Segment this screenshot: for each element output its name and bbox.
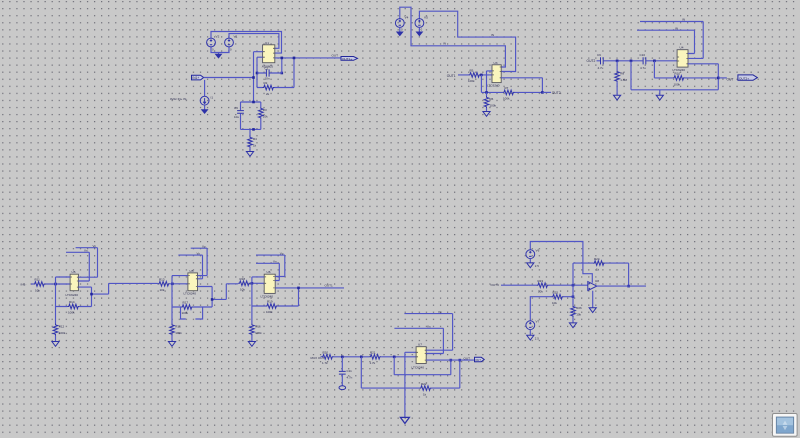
svg-text:10k: 10k: [263, 115, 268, 119]
svg-text:OUT2: OUT2: [552, 91, 561, 95]
svg-text:OUT: OUT: [464, 357, 471, 361]
svg-text:R16: R16: [255, 325, 261, 329]
svg-text:100k: 100k: [59, 331, 66, 335]
svg-text:100k: 100k: [255, 331, 262, 335]
svg-text:OUT: OUT: [727, 78, 734, 82]
svg-text:4.7u: 4.7u: [640, 66, 646, 70]
svg-text:R6: R6: [490, 97, 494, 101]
svg-text:R19: R19: [267, 300, 273, 304]
svg-text:R24: R24: [594, 257, 600, 261]
svg-text:1k: 1k: [253, 144, 257, 148]
svg-text:R5: R5: [470, 69, 474, 73]
svg-text:1.8M: 1.8M: [620, 78, 627, 82]
svg-text:OUT3: OUT3: [491, 283, 500, 287]
svg-text:U3: U3: [494, 61, 498, 65]
svg-text:R17: R17: [183, 301, 189, 305]
svg-text:C10: C10: [640, 53, 646, 57]
svg-text:100k: 100k: [175, 331, 182, 335]
svg-text:IN1+: IN1+: [192, 76, 199, 80]
svg-text:U6: U6: [267, 270, 271, 274]
svg-text:OUT2+: OUT2+: [739, 77, 749, 81]
svg-text:2.5: 2.5: [535, 264, 539, 268]
svg-text:100k: 100k: [182, 311, 189, 315]
svg-text:C11: C11: [347, 369, 353, 373]
svg-text:IN: IN: [491, 33, 494, 37]
svg-text:Vp: Vp: [438, 310, 442, 314]
svg-text:R26: R26: [576, 306, 582, 310]
svg-text:R22: R22: [421, 382, 427, 386]
svg-text:100k: 100k: [490, 104, 497, 108]
svg-text:Vn: Vn: [84, 249, 88, 253]
svg-text:IN: IN: [675, 26, 678, 30]
svg-text:R10: R10: [675, 72, 681, 76]
svg-text:R3: R3: [263, 108, 267, 112]
svg-text:U4: U4: [680, 46, 684, 50]
svg-text:2.5: 2.5: [535, 336, 539, 340]
svg-text:10u: 10u: [234, 115, 239, 119]
svg-text:R15: R15: [175, 325, 181, 329]
svg-text:1.7k: 1.7k: [370, 361, 376, 365]
svg-text:100k: 100k: [266, 310, 273, 314]
svg-text:R25: R25: [553, 290, 559, 294]
svg-text:OUT: OUT: [332, 54, 339, 58]
svg-text:U1: U1: [265, 41, 269, 45]
svg-text:R13: R13: [159, 278, 165, 282]
svg-text:10n: 10n: [265, 77, 270, 81]
svg-text:0Vdc IN+ IN-: 0Vdc IN+ IN-: [170, 97, 187, 101]
svg-text:IN: IN: [443, 42, 446, 46]
svg-text:C9: C9: [597, 53, 601, 57]
svg-text:R11: R11: [35, 278, 41, 282]
svg-text:10k: 10k: [240, 288, 245, 292]
svg-text:V5: V5: [424, 16, 428, 20]
svg-text:U5: U5: [72, 270, 76, 274]
svg-text:R20: R20: [323, 351, 329, 355]
svg-text:10k: 10k: [538, 290, 543, 294]
svg-text:R21: R21: [370, 351, 376, 355]
svg-text:Vp: Vp: [280, 251, 284, 255]
svg-text:OUT1: OUT1: [325, 283, 334, 287]
svg-text:100k: 100k: [503, 97, 510, 101]
svg-text:100k: 100k: [468, 79, 475, 83]
svg-text:LTC6240: LTC6240: [261, 294, 274, 298]
svg-text:R7: R7: [505, 86, 509, 90]
svg-text:4.7u: 4.7u: [598, 66, 604, 70]
svg-text:V1: V1: [234, 35, 238, 39]
svg-text:U8: U8: [595, 279, 599, 283]
svg-text:V2: V2: [216, 35, 220, 39]
svg-text:R23: R23: [538, 279, 544, 283]
svg-text:Vn: Vn: [427, 325, 431, 329]
svg-text:100k: 100k: [674, 82, 681, 86]
svg-text:R14: R14: [69, 300, 75, 304]
svg-text:R18: R18: [240, 277, 246, 281]
svg-text:U5: U5: [190, 269, 194, 273]
svg-text:C1: C1: [265, 67, 269, 71]
svg-text:Vp: Vp: [93, 244, 97, 248]
svg-text:R8: R8: [620, 72, 624, 76]
svg-text:10k: 10k: [35, 288, 40, 292]
svg-text:V7: V7: [536, 320, 540, 324]
svg-text:4.7n: 4.7n: [347, 376, 353, 380]
svg-text:1k: 1k: [596, 267, 600, 271]
svg-text:LTC6240: LTC6240: [66, 293, 79, 297]
svg-text:10k: 10k: [576, 313, 581, 317]
svg-text:Vn: Vn: [197, 251, 201, 255]
svg-text:R2: R2: [264, 81, 268, 85]
svg-text:V4: V4: [405, 16, 409, 20]
svg-text:OUT2: OUT2: [587, 59, 596, 63]
svg-text:V6: V6: [536, 249, 540, 253]
svg-text:IN1-: IN1-: [21, 283, 27, 287]
svg-text:OUT1+: OUT1+: [342, 57, 352, 61]
svg-text:Vn: Vn: [273, 260, 277, 264]
svg-text:OUT1: OUT1: [447, 74, 456, 78]
svg-text:LTC6240: LTC6240: [412, 365, 425, 369]
svg-text:LTC6240: LTC6240: [673, 68, 686, 72]
svg-text:Vp: Vp: [202, 244, 206, 248]
svg-text:1k: 1k: [423, 392, 427, 396]
svg-text:R4: R4: [253, 137, 257, 141]
svg-text:2k: 2k: [266, 92, 270, 96]
svg-text:10k: 10k: [552, 301, 557, 305]
svg-text:C3: C3: [234, 106, 238, 110]
svg-text:1.7k: 1.7k: [322, 361, 328, 365]
svg-text:R12: R12: [59, 325, 65, 329]
svg-text:10k: 10k: [160, 288, 165, 292]
svg-text:LTC6240: LTC6240: [487, 84, 500, 88]
svg-text:U7: U7: [418, 343, 422, 347]
svg-text:OUT: OUT: [475, 358, 481, 362]
svg-text:IN: IN: [682, 18, 685, 22]
svg-text:I1: I1: [211, 96, 214, 100]
svg-text:LTC6240: LTC6240: [184, 292, 197, 296]
svg-text:100k: 100k: [68, 310, 75, 314]
